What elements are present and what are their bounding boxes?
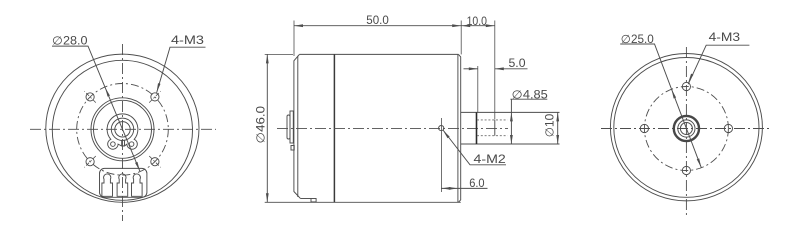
dim 50.0 line	[294, 25, 461, 27]
dia28 arrow upper	[105, 87, 110, 96]
svg-text:∅10: ∅10	[544, 113, 557, 137]
horizontal centerline	[30, 128, 216, 130]
dia46 top ext	[265, 53, 293, 55]
svg-text:5.0: 5.0	[509, 57, 527, 70]
M2 hole vertical line	[440, 118, 442, 192]
mounting hole M3 bottom-left	[86, 158, 94, 166]
dia25 leader	[620, 44, 671, 89]
dia25 dim line across bolt circle	[672, 89, 702, 168]
mounting hole M3 top-right	[151, 93, 159, 101]
terminal 3	[132, 174, 143, 196]
terminal block	[100, 168, 147, 197]
endcap rim line	[297, 56, 299, 197]
left face	[294, 54, 301, 198]
svg-text:50.0: 50.0	[366, 14, 389, 27]
dim 10.0 line	[461, 25, 495, 27]
dia28 dimension line across bolt circle	[105, 87, 140, 171]
dim 5.0 right segment	[495, 68, 528, 70]
M3 bottom-right crosshair	[149, 156, 160, 167]
rear outer circle	[610, 54, 762, 201]
circlip outer blob	[107, 114, 138, 149]
svg-text:6.0: 6.0	[469, 177, 485, 190]
M3 top-left crosshair	[84, 91, 95, 102]
M2 hole	[439, 126, 444, 131]
rear horizontal centerline	[601, 128, 771, 130]
shaft tip	[494, 120, 496, 136]
rear M3 hole left	[640, 124, 648, 132]
shaft boss top line	[461, 111, 560, 113]
dim 6 right arrow	[449, 187, 458, 190]
dia46 top arrow	[266, 54, 269, 63]
svg-text:∅4.85: ∅4.85	[512, 88, 549, 101]
hub circle 4	[680, 123, 692, 135]
dim 10 left arrow	[461, 24, 470, 27]
terminal 1	[102, 174, 113, 196]
dia10 dim vertical	[557, 112, 559, 144]
dia28 arrow lower	[135, 162, 140, 171]
4-M3 leader (left view)	[157, 47, 206, 93]
4-M2 leader	[443, 130, 506, 165]
can seam	[333, 54, 335, 202]
dim 6.0 line	[441, 187, 487, 189]
4-M2 arrow	[443, 130, 450, 138]
circlip ring	[111, 118, 133, 140]
dim 5.0 left segment	[464, 68, 478, 70]
4-M3 leader (right view)	[688, 45, 749, 84]
right face inner	[457, 54, 459, 202]
dim 10 right ext	[494, 21, 496, 120]
svg-text:4-M3: 4-M3	[709, 31, 741, 44]
dim 5 ext left	[477, 66, 479, 112]
mounting hole M3 top-left	[86, 93, 94, 101]
dim 5 right arrow	[495, 67, 504, 70]
shaft thread bottom	[477, 135, 508, 137]
dia25 arrow lower	[697, 158, 702, 167]
shaft bore	[115, 122, 130, 137]
dim 5 left arrow	[469, 67, 478, 70]
4-M3 arrow right view	[688, 74, 693, 83]
hub circle 1	[674, 116, 699, 141]
svg-text:∅28.0: ∅28.0	[52, 35, 88, 48]
dia46 dim vertical	[266, 54, 268, 202]
rear M3 hole right	[724, 124, 732, 132]
M3 bottom-left crosshair	[84, 156, 95, 167]
rear bolt circle dash-dot	[644, 87, 728, 171]
dim 6 left arrow	[441, 187, 450, 190]
dia4.85 underline	[510, 98, 547, 100]
bearing boss circle inner	[94, 100, 152, 158]
dim 50 shared ext / face ext	[460, 21, 462, 55]
endcap bottom tab	[311, 199, 316, 202]
svg-text:10.0: 10.0	[467, 15, 488, 28]
rear M3 hole top	[682, 82, 690, 90]
motor outer circle	[46, 54, 199, 202]
dia28 leader	[52, 46, 105, 87]
rear M3 hole bottom	[682, 166, 690, 174]
dia4.85 bottom arrow	[510, 135, 513, 144]
bolt circle (dash-dot)	[77, 84, 169, 176]
dim 50 left ext	[293, 21, 295, 57]
right face outer	[459, 54, 461, 202]
bearing boss circle outer	[91, 98, 154, 161]
hub circle 3	[678, 120, 695, 137]
rear boss rect1	[290, 111, 293, 143]
rear bottom tab	[291, 146, 294, 151]
circlip ear hole left	[111, 142, 116, 147]
dim 50 right arrow	[452, 24, 461, 27]
body bottom edge + ext line	[265, 201, 461, 203]
dia10 bottom arrow	[556, 135, 559, 144]
svg-text:4-M3: 4-M3	[171, 34, 204, 47]
rear inner circle	[614, 58, 759, 198]
rear boss rect2	[287, 115, 290, 139]
4-M3 arrow	[157, 83, 161, 92]
dim 10 right arrow	[486, 24, 495, 27]
circlip ear hole right	[129, 142, 134, 147]
dim 50 left arrow	[294, 24, 303, 27]
shaft boss bottom line	[461, 143, 560, 145]
circlip notch	[122, 141, 125, 146]
terminal 2	[117, 174, 128, 196]
vertical centerline	[122, 44, 124, 221]
endcap bottom edge	[300, 198, 311, 200]
dia4.85 dim vertical	[510, 99, 512, 144]
dia46 bottom arrow	[266, 193, 269, 202]
body top edge	[299, 53, 458, 55]
dia25 arrow upper	[672, 89, 677, 98]
svg-text:∅25.0: ∅25.0	[621, 33, 654, 46]
svg-text:4-M2: 4-M2	[474, 153, 506, 166]
mounting hole M3 bottom-right	[151, 158, 159, 166]
dia10 top arrow	[556, 112, 559, 121]
endcap flange circle	[52, 60, 192, 200]
shaft boss end	[476, 112, 478, 144]
M3 top-right crosshair	[149, 91, 160, 102]
middle centerline	[277, 127, 508, 129]
svg-text:∅46.0: ∅46.0	[254, 105, 267, 143]
dia4.85 top arrow	[510, 112, 513, 121]
shaft thread top	[477, 119, 508, 121]
rear vertical centerline	[685, 47, 687, 215]
